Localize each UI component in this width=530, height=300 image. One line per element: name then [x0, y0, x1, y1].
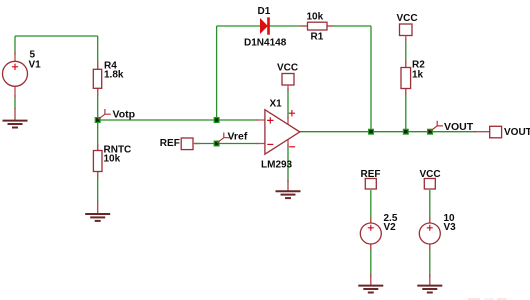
diode D1	[244, 6, 287, 49]
svg-text:10k: 10k	[307, 12, 324, 23]
wire V1 top horizontal	[15, 35, 98, 37]
svg-text:1.8k: 1.8k	[104, 70, 124, 81]
svg-text:REF: REF	[160, 138, 180, 149]
resistor RNTC	[93, 144, 131, 178]
wire output horizontal	[300, 131, 476, 133]
svg-text:D1: D1	[258, 6, 271, 17]
port VOUT (right)	[474, 126, 530, 138]
svg-text:R1: R1	[311, 32, 324, 43]
resistor R1	[301, 12, 335, 43]
resistor R4	[93, 61, 124, 97]
junction (R2 / output)	[403, 129, 409, 135]
svg-text:VOUT: VOUT	[444, 121, 474, 133]
wire top branch horizontal	[217, 25, 371, 27]
voltage source V2	[360, 213, 398, 250]
svg-text:LM293: LM293	[261, 160, 293, 171]
wire right branch vertical	[370, 26, 372, 132]
ground (below V3)	[417, 274, 442, 293]
svg-text:V2: V2	[384, 222, 397, 233]
probe marker Votp	[98, 109, 111, 119]
svg-text:V1: V1	[29, 59, 42, 70]
svg-text:Vref: Vref	[228, 131, 248, 143]
wire RNTC column	[97, 120, 99, 202]
svg-text:10k: 10k	[104, 154, 121, 165]
wire R4 column	[97, 36, 99, 120]
svg-text:1k: 1k	[412, 70, 424, 81]
wire V2 column	[370, 190, 372, 277]
svg-text:X1: X1	[270, 99, 283, 110]
voltage source V1	[3, 49, 42, 97]
power VCC (above V3)	[420, 169, 441, 189]
wire op-amp to ground	[287, 144, 289, 182]
power VCC (above R2)	[397, 13, 418, 41]
ground (below RNTC)	[85, 201, 110, 221]
wire node Votp horizontal	[98, 119, 258, 121]
wire VCC to op-amp	[287, 88, 289, 119]
junction node Votp	[95, 117, 101, 123]
voltage source V3	[419, 213, 456, 250]
faint watermark remnant	[468, 298, 507, 300]
ground (below V1)	[3, 108, 28, 128]
svg-text:VCC: VCC	[277, 63, 298, 74]
wire top branch vertical	[216, 26, 218, 120]
svg-text:VOUT: VOUT	[504, 127, 530, 138]
junction node Vref	[214, 141, 220, 147]
svg-text:V3: V3	[444, 222, 457, 233]
ground (below V2)	[358, 274, 383, 293]
power VCC (above op-amp)	[277, 63, 298, 92]
junction (R1 branch / output)	[368, 129, 374, 135]
svg-text:VCC: VCC	[397, 13, 418, 24]
port REF (left)	[160, 138, 200, 150]
wire R2 column	[405, 38, 407, 132]
ground (below op-amp)	[276, 180, 301, 198]
power REF (above V2)	[361, 169, 381, 189]
junction node VOUT	[427, 129, 433, 135]
probe marker VOUT	[431, 121, 444, 131]
svg-text:Votp: Votp	[113, 109, 136, 121]
op-amp U1 X1 LM293	[256, 99, 300, 171]
probe marker Vref	[217, 133, 230, 143]
svg-text:D1N4148: D1N4148	[244, 38, 287, 49]
resistor R2	[401, 60, 425, 97]
wire V1 vertical lead	[14, 36, 16, 109]
junction (top branch / Votp)	[214, 117, 220, 123]
wire V3 column	[429, 190, 431, 277]
wire node Vref horizontal	[194, 143, 258, 145]
